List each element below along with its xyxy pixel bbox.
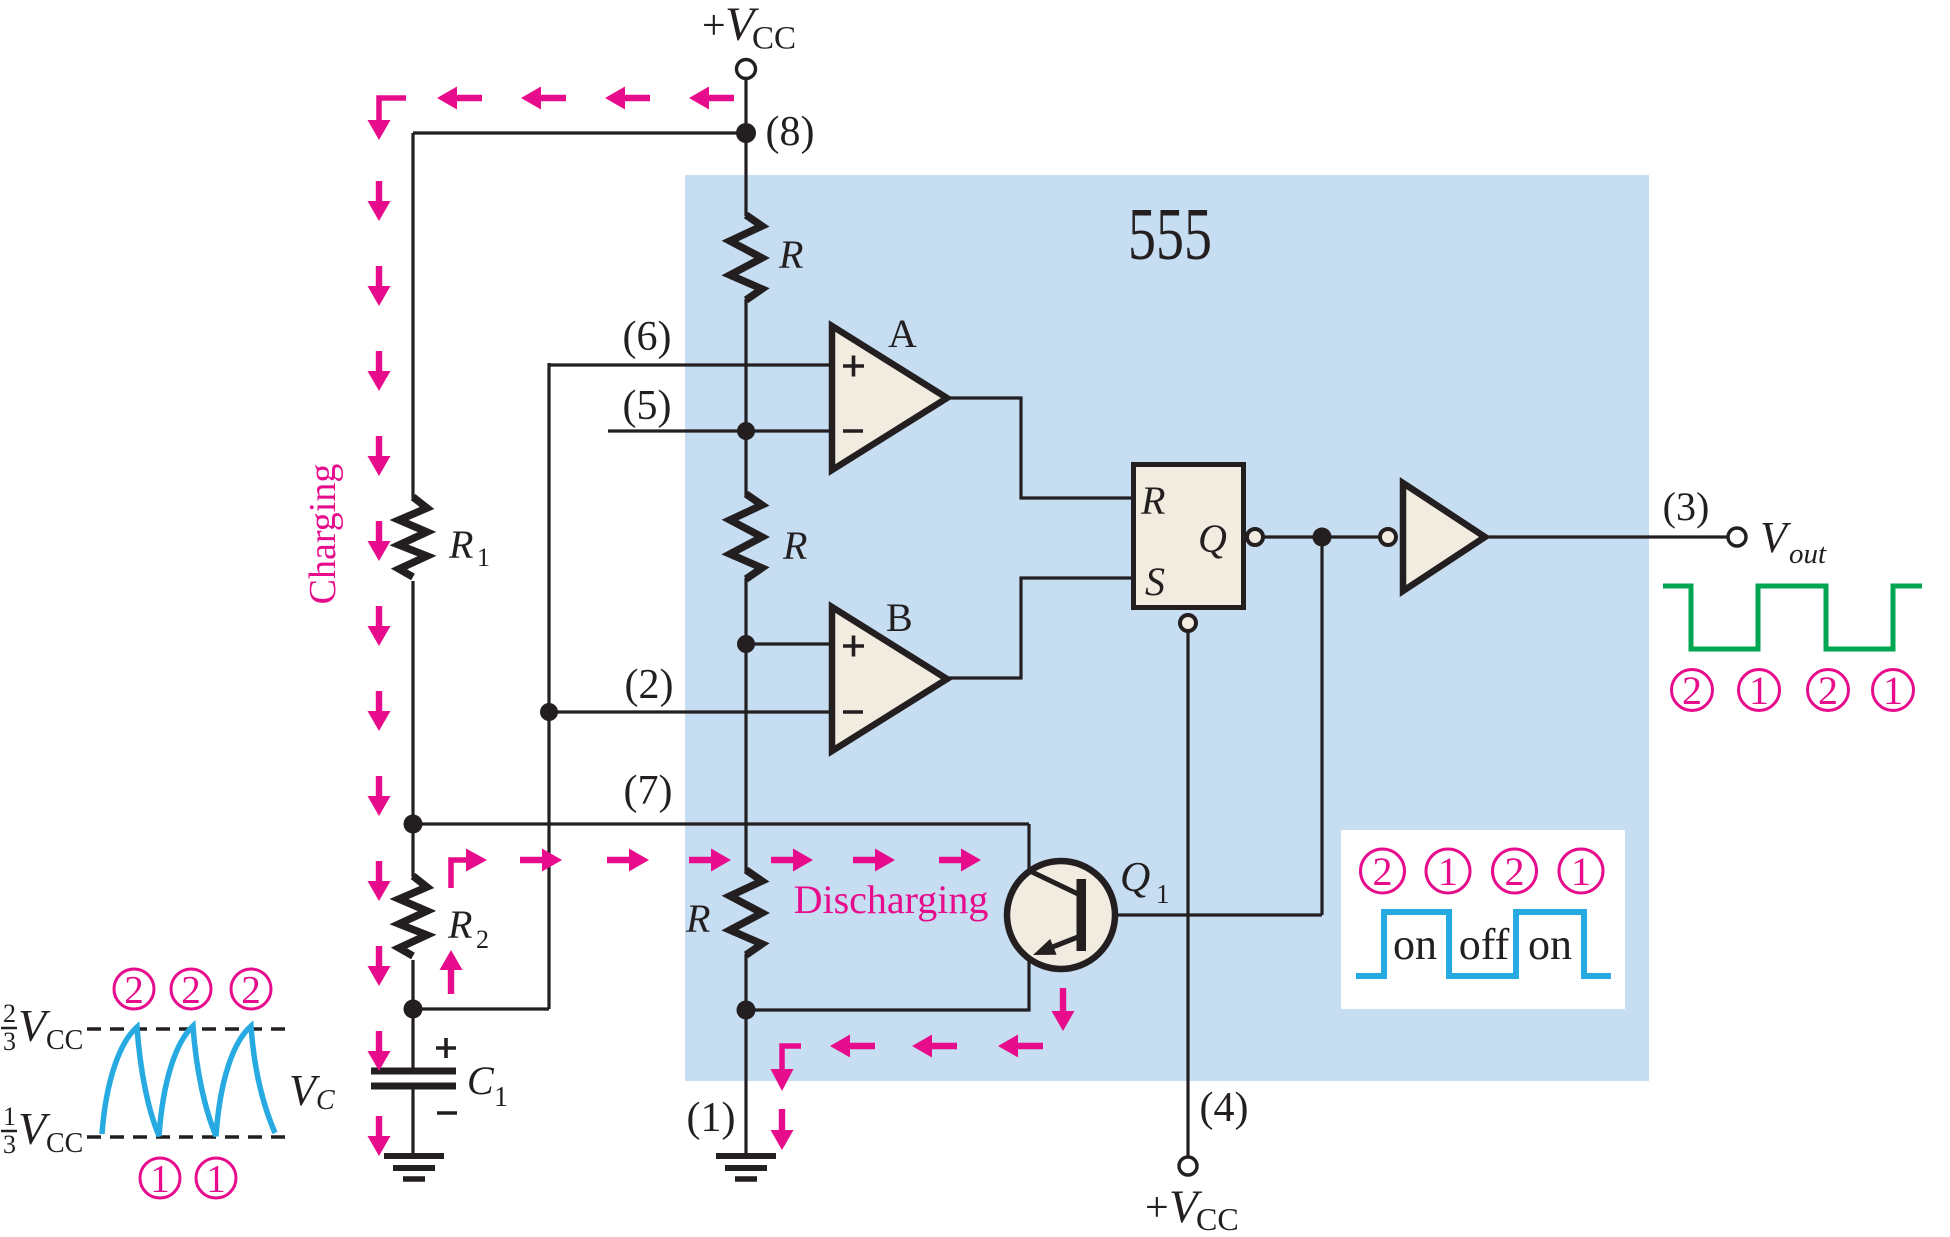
node dot pin2 junction [540, 703, 558, 721]
svg-text:+: + [702, 3, 726, 49]
svg-text:(1): (1) [687, 1095, 736, 1141]
svg-text:2: 2 [1682, 668, 1702, 713]
charging path arrow down 3 [368, 351, 391, 391]
discharging arrow down below Q1 [1052, 988, 1075, 1031]
dashed line 1/3 Vcc [87, 1135, 290, 1139]
buffer input bubble [1380, 529, 1396, 545]
circled 1 under green wave [1739, 668, 1780, 713]
svg-text:C: C [467, 1058, 495, 1103]
svg-text:(4): (4) [1200, 1085, 1249, 1131]
charging path arrow down 6 [368, 606, 391, 646]
discharging up arrow right of R2 [440, 950, 463, 994]
wire divider node to comparator B + [746, 642, 832, 645]
svg-text:(6): (6) [623, 314, 672, 360]
svg-text:(5): (5) [623, 383, 672, 429]
svg-text:1: 1 [1156, 879, 1170, 909]
svg-text:A: A [888, 311, 917, 356]
junction dot Q output [1313, 528, 1332, 547]
svg-text:1: 1 [3, 1102, 16, 1131]
svg-text:off: off [1459, 920, 1510, 969]
svg-text:2: 2 [1373, 849, 1393, 894]
svg-text:out: out [1789, 538, 1827, 570]
discharging path arrow right 3 [689, 849, 731, 872]
charging path arrow down 10 [368, 946, 391, 986]
charging path arrow left 2 [521, 87, 566, 110]
node dot above C1 [404, 1000, 423, 1019]
wire node 7 to R2 top [411, 825, 414, 877]
node dot pin7 left [404, 815, 423, 834]
wire Vcc terminal to node 8 [744, 78, 747, 133]
node dot divider B+ [737, 635, 755, 653]
wire node above C1 to trigger vertical [413, 1007, 549, 1010]
discharging final down arrow [771, 1109, 794, 1150]
terminal pin4 [1179, 1157, 1197, 1175]
comparator B minus input sign [843, 710, 863, 714]
circled 2 under green wave [1672, 668, 1713, 713]
wire Q1 base [1086, 913, 1322, 916]
svg-text:B: B [886, 595, 913, 640]
svg-text:1: 1 [1749, 668, 1769, 713]
wire R mid bottom to R bottom top [744, 578, 747, 872]
wire R1 bottom to node 7 [411, 581, 414, 825]
svg-text:Discharging: Discharging [794, 877, 989, 922]
wire node 8 to R top [744, 133, 747, 216]
svg-text:2: 2 [3, 999, 16, 1028]
ground symbol under C1 [384, 1153, 444, 1159]
svg-text:3: 3 [3, 1130, 16, 1159]
inset circled 1 [1426, 849, 1470, 894]
svg-text:1: 1 [1571, 849, 1591, 894]
op-amp comparator A [832, 326, 947, 470]
wire comparator A output to flip-flop R [947, 398, 1132, 498]
cyan square wave on-off [1356, 912, 1611, 976]
charging path arrow down 5 [368, 521, 391, 561]
wire pin6 horizontal to comparator A + [549, 363, 832, 366]
svg-text:555: 555 [1128, 194, 1212, 276]
svg-text:(3): (3) [1663, 484, 1710, 529]
inset circled 1b [1559, 849, 1603, 894]
output buffer triangle [1403, 483, 1485, 591]
sawtooth circled 1 second [196, 1157, 236, 1200]
wire C1 bottom plate to ground [411, 1089, 414, 1153]
transistor Q1 emitter lead [1050, 937, 1078, 948]
charging path arrow down 9 [368, 861, 391, 901]
svg-text:1: 1 [150, 1157, 170, 1200]
svg-text:CC: CC [46, 1025, 83, 1056]
transistor Q1 base bar [1077, 879, 1087, 951]
svg-text:Q: Q [1198, 516, 1227, 561]
sawtooth circled 2 third [231, 968, 271, 1011]
wire trigger/threshold vertical [547, 363, 550, 1009]
charging path arrow left 4 from Vcc [689, 87, 734, 110]
resistor R (bottom) [730, 870, 762, 955]
terminal +Vcc top [737, 60, 756, 79]
wire comparator B output to flip-flop S [947, 578, 1132, 678]
green square wave Vout [1663, 586, 1922, 649]
charging path arrow down 11 [368, 1031, 391, 1071]
node dot bottom ground [737, 1001, 756, 1020]
svg-text:1: 1 [494, 1082, 508, 1113]
wire pin5 stub to comparator A - [608, 429, 832, 432]
svg-text:2: 2 [1505, 849, 1525, 894]
discharging path arrow left 2 [912, 1035, 957, 1058]
svg-text:2: 2 [241, 968, 261, 1011]
wire node to C1 top plate [411, 1010, 414, 1069]
svg-text:1: 1 [1438, 849, 1458, 894]
wire R bottom to ground node [744, 954, 747, 1010]
charging path corner arrow top left [379, 98, 406, 121]
svg-text:on: on [1393, 920, 1437, 969]
svg-text:3: 3 [3, 1027, 16, 1056]
sawtooth circled 2 first [114, 968, 154, 1011]
svg-text:R: R [685, 896, 710, 941]
svg-text:1: 1 [477, 543, 490, 572]
cyan sawtooth Vc [102, 1026, 275, 1136]
comparator A minus input sign [843, 429, 863, 433]
C1 plus sign [436, 1038, 456, 1058]
svg-text:R: R [447, 902, 472, 947]
inset circled 2 [1361, 849, 1405, 894]
svg-text:CC: CC [752, 21, 796, 57]
resistor R (middle) [730, 494, 762, 579]
discharging path arrow left 1 [998, 1035, 1043, 1058]
svg-text:(8): (8) [766, 109, 815, 155]
svg-text:(7): (7) [624, 768, 673, 814]
comparator A plus input sign [843, 356, 864, 377]
sawtooth circled 1 first [140, 1157, 180, 1200]
svg-text:CC: CC [46, 1128, 83, 1159]
svg-text:R: R [1140, 478, 1165, 523]
discharging path arrow right 5 [853, 849, 895, 872]
transistor Q1 body [1007, 861, 1115, 969]
charging path arrow down 8 [368, 776, 391, 816]
wire Q junction down to Q1 base [1320, 537, 1323, 915]
ground symbol pin 1 [716, 1153, 776, 1159]
svg-text:(2): (2) [625, 662, 674, 708]
wire R2 bottom to node above C1 [411, 960, 414, 1010]
terminal pin3 Vout [1728, 528, 1746, 546]
wire Q1 collector vertical [1027, 824, 1030, 873]
flip-flop Q output bubble [1247, 529, 1263, 545]
resistor R2 [399, 876, 427, 956]
discharging path arrow left 3 [830, 1035, 875, 1058]
svg-text:R: R [448, 522, 473, 567]
svg-text:2: 2 [1818, 668, 1838, 713]
svg-text:R: R [778, 232, 803, 277]
sawtooth circled 2 second [171, 968, 211, 1011]
flip-flop box [1134, 465, 1244, 608]
svg-text:1: 1 [206, 1157, 226, 1200]
svg-text:V: V [1760, 513, 1792, 562]
comparator B plus input sign [843, 636, 864, 657]
dashed line 2/3 Vcc [87, 1027, 290, 1031]
discharging path arrow right 2 [607, 849, 649, 872]
svg-text:Charging: Charging [302, 464, 344, 605]
wire flip-flop bottom to pin 4 terminal [1186, 631, 1189, 1157]
svg-text:+: + [1145, 1185, 1169, 1231]
op-amp comparator B [832, 607, 947, 751]
svg-text:Q: Q [1120, 855, 1150, 901]
charging path arrow down 12 [368, 1116, 391, 1156]
svg-text:2: 2 [476, 925, 489, 954]
wire pin2 horizontal to comparator B - [549, 710, 832, 713]
svg-text:C: C [316, 1085, 335, 1116]
wire ground node down to ground symbol [744, 1010, 747, 1153]
wire left branch down to R1 [411, 133, 414, 498]
wire R top to R mid through node 5 [744, 299, 747, 496]
charging path arrow left 1 [437, 87, 482, 110]
svg-text:S: S [1145, 559, 1165, 604]
capacitor C1 [371, 1068, 456, 1075]
svg-text:2: 2 [124, 968, 144, 1011]
white inset box [1341, 830, 1625, 1009]
resistor R (top, pin 8 to pin 5 node) [730, 215, 762, 300]
svg-text:R: R [782, 523, 807, 568]
node 8 dot [736, 123, 756, 143]
circled 1b under green wave [1873, 668, 1914, 713]
wire Q1 emitter to ground wire [746, 956, 1029, 1010]
transistor Q1 collector lead [1030, 871, 1078, 894]
charging path arrow down 1 [368, 181, 391, 221]
flip-flop bottom bubble [1180, 615, 1196, 631]
charging path arrow down 4 [368, 436, 391, 476]
wire pin7 horizontal [413, 822, 1029, 825]
charging path arrow down 2 [368, 266, 391, 306]
svg-text:on: on [1528, 920, 1572, 969]
svg-text:1: 1 [1883, 668, 1903, 713]
discharging path corner arrow bottom [782, 1046, 801, 1069]
discharging path corner arrow at R2 [451, 860, 466, 888]
C1 minus sign [437, 1111, 457, 1115]
circled 2b under green wave [1808, 668, 1849, 713]
charging path arrow left 3 [605, 87, 650, 110]
discharging path arrow right 1 [520, 849, 562, 872]
inset circled 2b [1493, 849, 1537, 894]
discharging path arrow right 6 [939, 849, 981, 872]
555 IC shaded region [685, 175, 1649, 1081]
resistor R1 [399, 497, 427, 577]
wire buffer output to pin 3 [1485, 535, 1728, 538]
wire Q output to buffer [1263, 535, 1380, 538]
charging path arrow down 7 [368, 691, 391, 731]
node dot pin5 divider [737, 422, 755, 440]
wire node 8 horizontal to left branch [413, 131, 746, 134]
svg-text:2: 2 [181, 968, 201, 1011]
svg-text:CC: CC [1196, 1201, 1239, 1237]
discharging path arrow right 4 [771, 849, 813, 872]
